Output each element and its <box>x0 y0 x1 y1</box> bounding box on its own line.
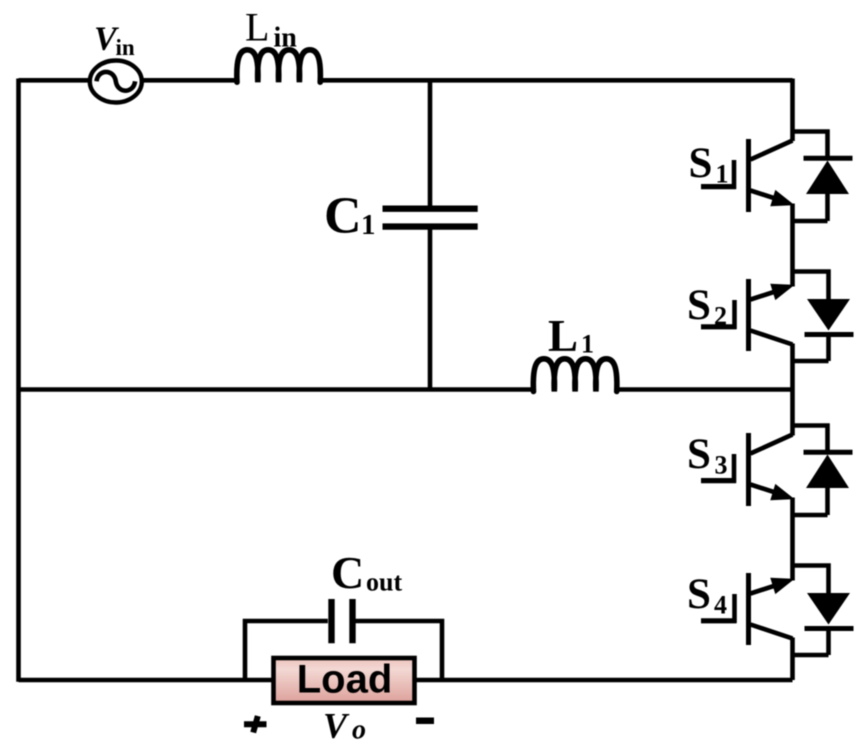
wire top horizontal left segment <box>19 78 238 83</box>
diode D1 <box>793 132 853 222</box>
svg-text:1: 1 <box>716 160 729 189</box>
svg-text:out: out <box>366 568 402 597</box>
wire C1 branch upper <box>428 80 433 205</box>
inductor L1 <box>533 359 617 392</box>
svg-text:L: L <box>548 311 578 361</box>
AC source V_in <box>90 61 142 103</box>
right rail segment bottom <box>790 638 795 681</box>
wire middle horizontal left of L1 <box>19 387 535 392</box>
wire left vertical <box>16 79 21 682</box>
right rail segment S1-S2 <box>790 204 795 287</box>
inductor Lin <box>237 50 321 82</box>
svg-text:o: o <box>352 715 366 746</box>
wire top horizontal right segment <box>321 78 793 83</box>
IGBT S3 <box>701 433 793 506</box>
svg-text:C: C <box>324 188 362 245</box>
svg-text:S: S <box>687 431 711 478</box>
right rail segment S3-S4 <box>790 498 795 581</box>
diode D3 <box>793 426 853 516</box>
svg-text:2: 2 <box>714 302 727 331</box>
svg-text:in: in <box>274 23 298 54</box>
wire C1 branch lower <box>428 230 433 390</box>
svg-text:L: L <box>245 5 269 50</box>
load box <box>274 658 415 704</box>
svg-text:C: C <box>331 547 364 598</box>
svg-text:V: V <box>323 705 350 745</box>
right rail segment S2-S3 <box>790 344 795 436</box>
wire bottom horizontal <box>19 678 793 683</box>
diode D2 <box>793 272 854 362</box>
svg-text:3: 3 <box>715 451 728 480</box>
svg-text:Load: Load <box>297 658 393 702</box>
IGBT S1 <box>701 139 793 212</box>
label minus <box>416 718 434 725</box>
IGBT S4 <box>701 573 793 645</box>
svg-text:1: 1 <box>581 330 594 359</box>
svg-text:S: S <box>689 140 713 187</box>
svg-text:S: S <box>687 282 711 329</box>
label plus <box>244 716 267 733</box>
svg-text:in: in <box>116 35 135 60</box>
IGBT S2 <box>701 279 793 351</box>
capacitor C1 <box>383 209 478 227</box>
svg-text:S: S <box>687 571 711 618</box>
wire middle horizontal right of L1 <box>618 387 793 392</box>
diode D4 <box>793 566 854 656</box>
right rail segment top <box>790 79 795 142</box>
svg-text:4: 4 <box>714 591 727 620</box>
capacitor Cout bracket <box>245 599 442 680</box>
svg-text:1: 1 <box>361 209 376 241</box>
